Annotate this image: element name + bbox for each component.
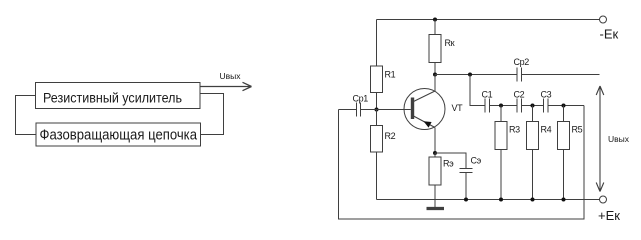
node: C1/R3 junction dot bbox=[499, 104, 503, 108]
svg-text:R4: R4 bbox=[541, 125, 552, 135]
node: Cp2 tap junction dot bbox=[468, 73, 472, 77]
wire: bottom supply rail bbox=[377, 199, 600, 201]
svg-text:R1: R1 bbox=[385, 70, 396, 80]
svg-text:Фазовращающая цепочка: Фазовращающая цепочка bbox=[40, 127, 198, 144]
resistor R5 bbox=[558, 122, 570, 150]
wire: top supply rail bbox=[377, 19, 600, 21]
transistor VT base bar bbox=[411, 98, 414, 120]
node: C2/R4 junction dot bbox=[531, 104, 535, 108]
node: R3/rail junction dot bbox=[499, 198, 503, 202]
wire: block output arrow bbox=[200, 82, 252, 90]
wire: R5 top lead bbox=[563, 106, 565, 122]
resistor R1 bbox=[371, 66, 383, 93]
wire: R2 top lead bbox=[376, 110, 378, 126]
terminal: +Ек output circle bbox=[600, 196, 607, 203]
wire: emitter to Сэ branch bbox=[435, 153, 466, 169]
wire: C3 to right loop corner bbox=[548, 105, 584, 107]
wire: Сэ bottom lead bbox=[465, 173, 467, 200]
wire: Rэ top lead bbox=[434, 153, 436, 157]
wire: base node to transistor bbox=[377, 109, 411, 111]
wire: Rэ bottom lead through rail bbox=[434, 185, 436, 200]
wire: R1 top lead from rail bbox=[376, 20, 378, 67]
node: Сэ/rail junction dot bbox=[464, 198, 468, 202]
transistor VT emitter diagonal bbox=[414, 116, 436, 128]
wire: R3 top lead bbox=[500, 106, 502, 122]
svg-text:C2: C2 bbox=[514, 90, 525, 100]
svg-text:C1: C1 bbox=[482, 90, 493, 100]
wire: input wire to Cp1 bbox=[339, 109, 357, 111]
svg-text:-Ек: -Ек bbox=[600, 27, 619, 42]
svg-text:Rэ: Rэ bbox=[443, 159, 454, 169]
node: R5/rail junction dot bbox=[562, 198, 566, 202]
svg-text:Uвых: Uвых bbox=[220, 71, 242, 81]
svg-text:Rк: Rк bbox=[445, 38, 455, 48]
capacitor C1 bbox=[485, 99, 490, 113]
capacitor C2 bbox=[517, 99, 522, 113]
transistor VT emitter arrow (PNP, points to base) bbox=[424, 121, 432, 127]
wire: R4 top lead bbox=[532, 106, 534, 122]
block: phase-shift chain box bbox=[36, 123, 201, 146]
wire: ground stem bbox=[434, 200, 436, 208]
block: resistive amplifier box bbox=[36, 83, 201, 109]
node: emitter junction dot bbox=[433, 151, 437, 155]
node: C3/R5 junction dot bbox=[562, 104, 566, 108]
resistor Rэ bbox=[429, 157, 441, 185]
wire: Rк top lead bbox=[434, 20, 436, 35]
svg-text:+Ек: +Ек bbox=[598, 208, 620, 223]
svg-text:Uвых: Uвых bbox=[608, 134, 630, 144]
transistor VT circle bbox=[404, 89, 445, 130]
svg-text:R3: R3 bbox=[509, 125, 520, 135]
wire: right feedback loop bbox=[200, 94, 224, 135]
wire: feedback loop right vertical and bottom return to Cp1 bbox=[339, 106, 585, 220]
node: base junction dot bbox=[375, 108, 379, 112]
capacitor Сэ bbox=[460, 169, 473, 173]
resistor Rк bbox=[429, 35, 441, 63]
wire: R4 bottom lead bbox=[532, 150, 534, 200]
svg-text:VT: VT bbox=[452, 103, 464, 113]
wire: tap down to C-row bbox=[470, 75, 485, 106]
svg-text:Cp2: Cp2 bbox=[514, 57, 530, 67]
wire: R1 bottom lead to base node bbox=[376, 93, 378, 110]
wire: left feedback loop bbox=[16, 96, 37, 135]
wire: collector row to output (broken at Cp2) bbox=[435, 74, 600, 76]
wire: R3 bottom lead bbox=[500, 150, 502, 200]
svg-text:C3: C3 bbox=[541, 90, 552, 100]
capacitor Cp2 bbox=[517, 68, 522, 82]
wire: Uвых measurement double arrow bbox=[596, 86, 604, 192]
wire: R2 bottom lead down to bottom rail bbox=[376, 152, 378, 200]
resistor R4 bbox=[527, 122, 539, 150]
ground bbox=[427, 207, 445, 210]
svg-text:Резистивный усилитель: Резистивный усилитель bbox=[43, 90, 182, 106]
svg-text:Cp1: Cp1 bbox=[353, 94, 369, 104]
wire: Rк bottom lead bbox=[434, 63, 436, 75]
wire: emitter lead down bbox=[434, 128, 436, 154]
node: R4/rail junction dot bbox=[531, 198, 535, 202]
wire: R5 bottom lead bbox=[563, 150, 565, 200]
node: collector junction dot bbox=[433, 73, 437, 77]
wire: C1 to C2 segment bbox=[490, 105, 518, 107]
svg-text:R2: R2 bbox=[385, 131, 396, 141]
capacitor C3 bbox=[544, 99, 549, 113]
wire: Cp1 to base node bbox=[361, 109, 377, 111]
capacitor Cp1 bbox=[357, 103, 361, 117]
svg-text:Сэ: Сэ bbox=[471, 156, 482, 166]
wire: collector lead up to node bbox=[434, 75, 436, 92]
terminal: -Ек output circle bbox=[600, 16, 607, 23]
resistor R3 bbox=[495, 122, 507, 150]
node: rail-Rк junction dot bbox=[433, 18, 437, 22]
wire: C2 to C3 segment bbox=[522, 105, 544, 107]
resistor R2 bbox=[371, 126, 383, 153]
transistor VT collector diagonal bbox=[414, 91, 436, 102]
svg-text:R5: R5 bbox=[572, 125, 583, 135]
